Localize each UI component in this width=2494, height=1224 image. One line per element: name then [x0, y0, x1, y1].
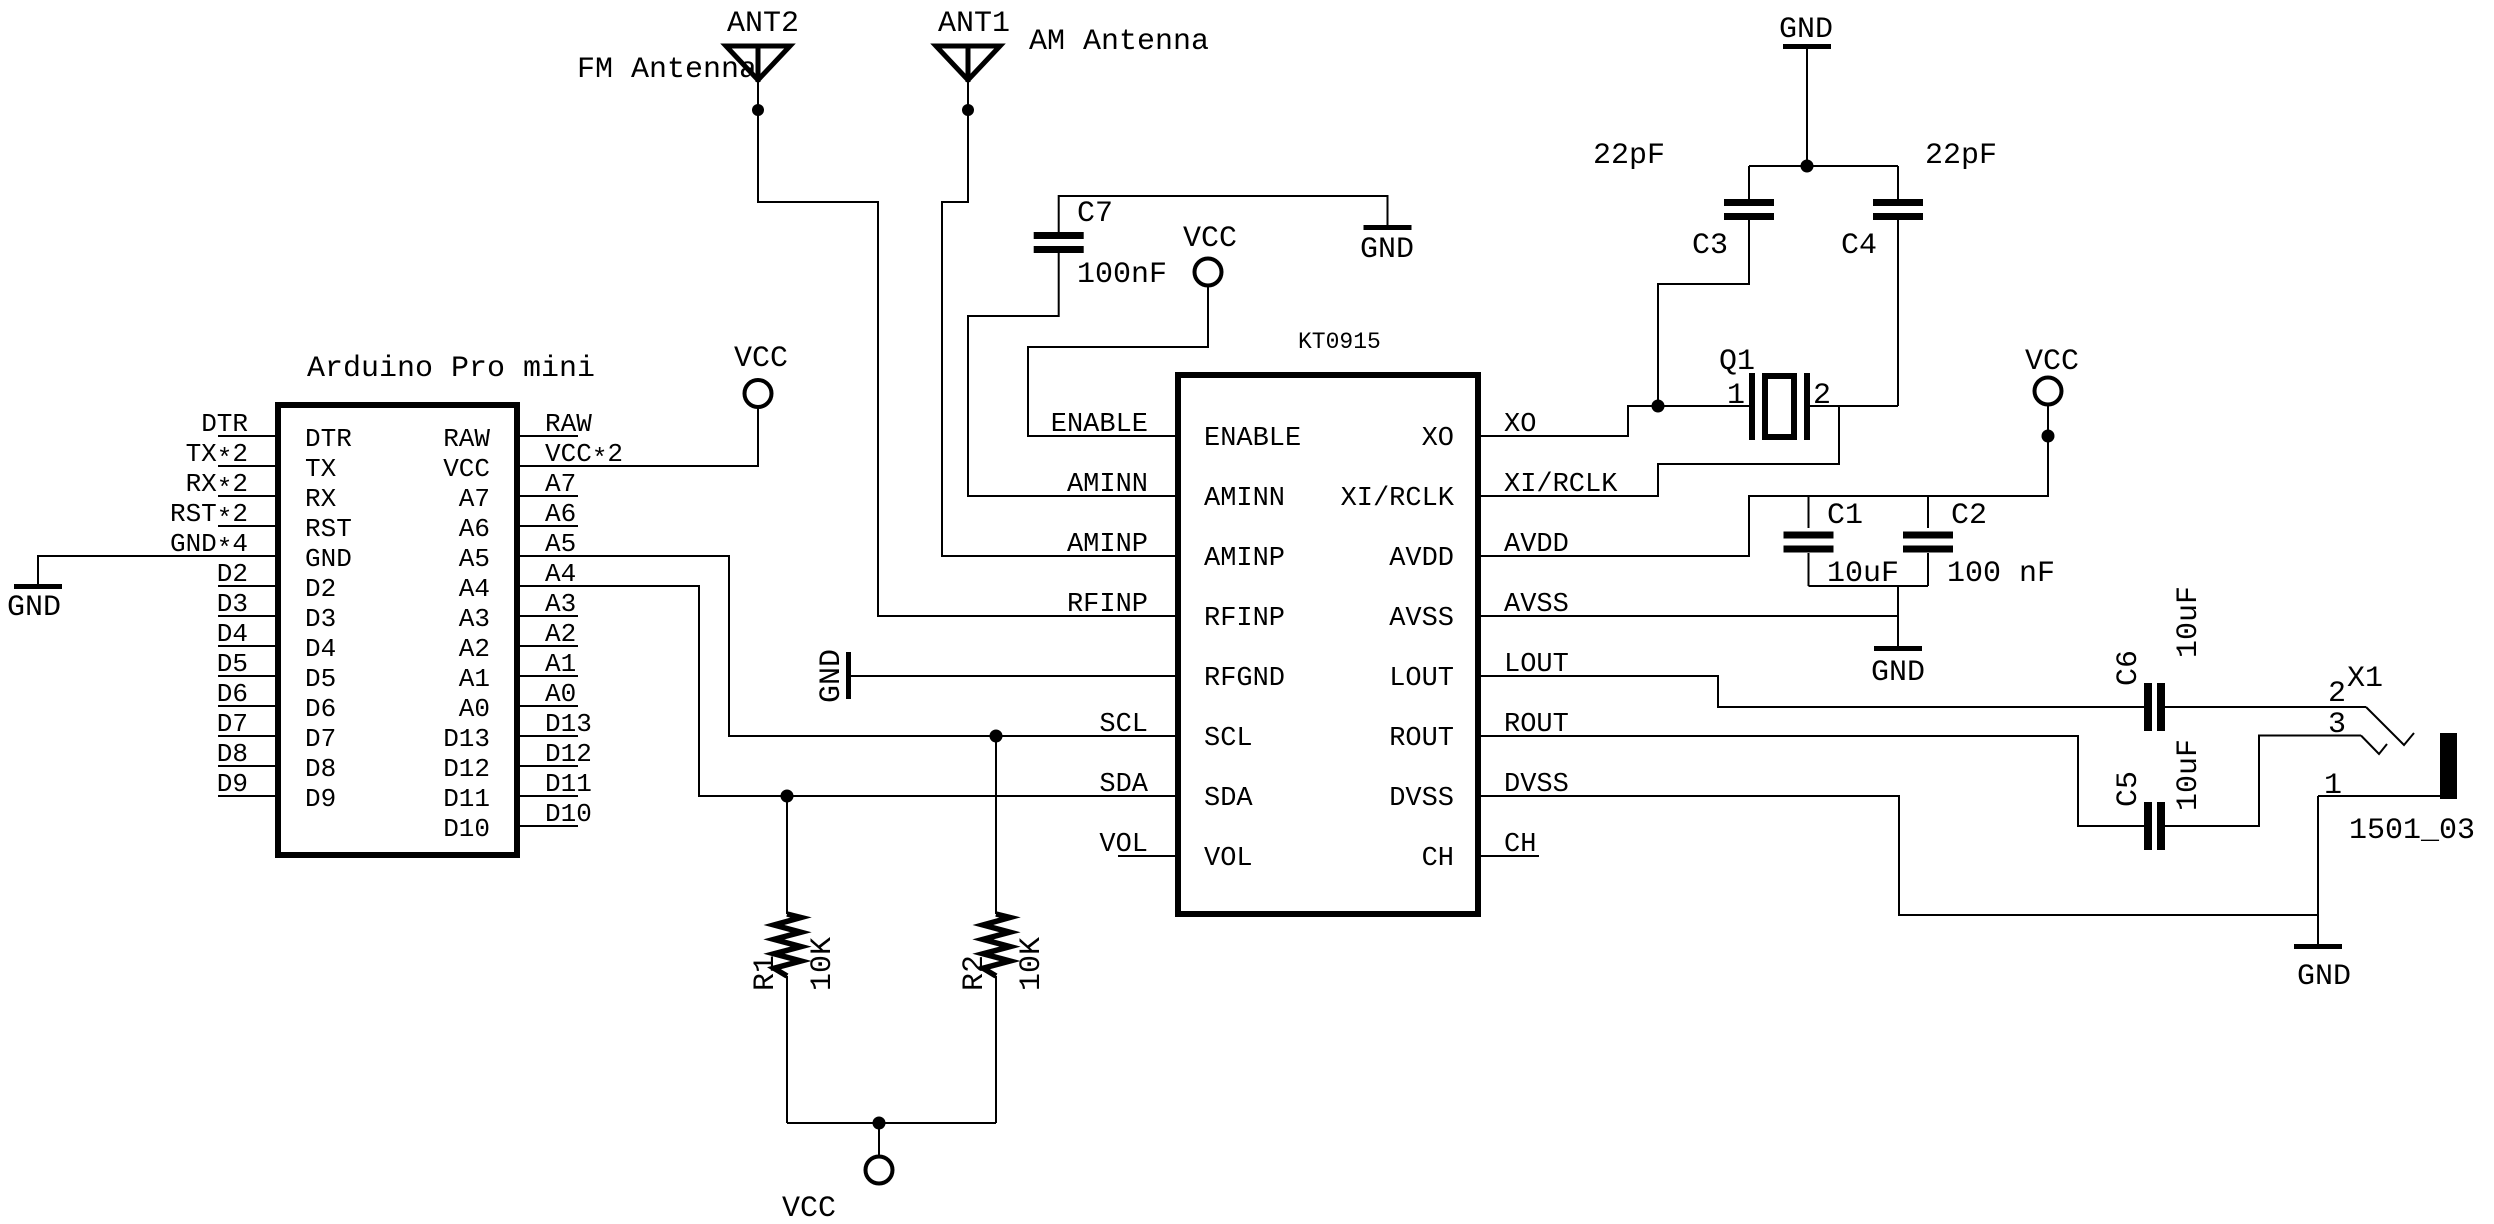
wire A5 to SCL [517, 556, 1178, 736]
pin D13 (Arduino right) [517, 735, 578, 737]
svg-text:2: 2 [1813, 379, 1831, 413]
capacitor C6 10uF [2144, 683, 2152, 731]
svg-text:RAW: RAW [443, 424, 490, 454]
svg-text:D2: D2 [305, 574, 336, 604]
svg-text:C7: C7 [1077, 197, 1113, 231]
svg-text:VOL: VOL [1204, 844, 1253, 874]
svg-text:D8: D8 [305, 754, 336, 784]
pin A6 (Arduino right) [517, 525, 578, 527]
pin D5 (Arduino left) [218, 675, 278, 677]
svg-text:RST: RST [305, 514, 352, 544]
wire C3 top [1748, 166, 1750, 199]
wire C1-C2 bottoms [1809, 585, 1929, 587]
svg-text:3: 3 [2328, 708, 2346, 742]
pin D2 (Arduino left) [218, 585, 278, 587]
wire C6 to X1 pin2 [2165, 706, 2366, 708]
pin A3 (Arduino right) [517, 615, 578, 617]
supply VCC (Arduino) [745, 380, 772, 407]
svg-text:ENABLE: ENABLE [1204, 424, 1301, 454]
svg-text:GND: GND [7, 591, 61, 625]
node ANT2 junction [752, 104, 764, 116]
ground symbol GND (Arduino) [14, 584, 62, 589]
wire X1 pin1 [2318, 795, 2440, 797]
pin D8 (Arduino left) [218, 765, 278, 767]
svg-text:D6: D6 [305, 694, 336, 724]
antenna ANT1 symbol [936, 46, 1000, 80]
svg-text:RAW: RAW [545, 409, 592, 439]
pin DTR (Arduino left) [218, 435, 278, 437]
svg-text:A0: A0 [459, 694, 490, 724]
svg-text:XI/RCLK: XI/RCLK [1341, 484, 1455, 514]
svg-text:ROUT: ROUT [1389, 724, 1454, 754]
wire C5 to X1 pin3 [2165, 736, 2361, 827]
pin D4 (Arduino left) [218, 645, 278, 647]
connector X1 contact arm pin3 [2361, 736, 2387, 755]
crystal Q1 symbol [1749, 373, 1755, 440]
pin A0 (Arduino right) [517, 705, 578, 707]
node SDA junction [781, 790, 794, 803]
svg-text:VCC: VCC [734, 342, 788, 376]
svg-text:GND: GND [1871, 656, 1925, 690]
wire VCC*2 net from Arduino VCC pin [517, 407, 758, 466]
wire R1-R2 bottoms to VCC [787, 1122, 996, 1124]
svg-text:A3: A3 [545, 589, 576, 619]
pin D10 (Arduino right) [517, 825, 578, 827]
connector X1 contact arm pin2 [2366, 707, 2414, 745]
wire C3-C4 tops to GND [1749, 165, 1898, 167]
svg-text:GND: GND [815, 649, 849, 703]
svg-text:1: 1 [2324, 769, 2342, 803]
svg-text:10K: 10K [1015, 937, 1049, 991]
svg-text:A2: A2 [459, 634, 490, 664]
wire LOUT to C6 [1478, 676, 2144, 707]
svg-text:D5: D5 [305, 664, 336, 694]
wire VCC to ENABLE pin [1028, 286, 1208, 436]
pin D12 (Arduino right) [517, 765, 578, 767]
ground GND (RFGND) rotated [846, 652, 851, 699]
svg-text:D4: D4 [305, 634, 336, 664]
pin D7 (Arduino left) [218, 735, 278, 737]
capacitor C3 22pF [1724, 199, 1774, 206]
svg-text:Arduino Pro mini: Arduino Pro mini [307, 352, 595, 386]
wire DVSS to GND [1478, 796, 2318, 915]
supply VCC (pull-ups) [866, 1157, 893, 1184]
wire Q1 pin2 [1810, 405, 1898, 407]
svg-text:RX: RX [305, 484, 337, 514]
wire ANT1 to AMINP [942, 82, 1178, 556]
pin RFGND (KT0915 left) [1118, 675, 1178, 677]
svg-text:D5: D5 [217, 649, 248, 679]
svg-text:D8: D8 [217, 739, 248, 769]
svg-text:D13: D13 [443, 724, 490, 754]
svg-text:D10: D10 [443, 814, 490, 844]
svg-text:AVDD: AVDD [1389, 544, 1454, 574]
svg-text:RFINP: RFINP [1067, 590, 1148, 620]
svg-text:VCC: VCC [782, 1192, 836, 1224]
pin RST (Arduino left) [218, 525, 278, 527]
svg-text:R2: R2 [958, 955, 992, 991]
svg-text:A0: A0 [545, 679, 576, 709]
supply VCC (ENABLE) [1195, 259, 1222, 286]
svg-text:10K: 10K [806, 937, 840, 991]
svg-text:SCL: SCL [1204, 724, 1253, 754]
svg-text:AVSS: AVSS [1389, 604, 1454, 634]
pin D11 (Arduino right) [517, 795, 578, 797]
svg-text:A4: A4 [459, 574, 490, 604]
svg-text:SDA: SDA [1204, 784, 1253, 814]
svg-text:D11: D11 [443, 784, 490, 814]
svg-text:D7: D7 [217, 709, 248, 739]
svg-text:D2: D2 [217, 559, 248, 589]
svg-text:A7: A7 [545, 469, 576, 499]
pin RAW (Arduino right) [517, 435, 578, 437]
svg-text:CH: CH [1504, 830, 1536, 860]
svg-text:AMINN: AMINN [1067, 470, 1148, 500]
svg-text:FM Antenna: FM Antenna [577, 53, 757, 87]
svg-text:A6: A6 [545, 499, 576, 529]
svg-text:D7: D7 [305, 724, 336, 754]
svg-text:X1: X1 [2347, 662, 2383, 696]
svg-text:D9: D9 [305, 784, 336, 814]
ground GND (C7) [1364, 225, 1412, 230]
pin TX (Arduino left) [218, 465, 278, 467]
svg-text:XO: XO [1422, 424, 1454, 454]
node SCL junction [990, 730, 1003, 743]
svg-text:CH: CH [1422, 844, 1454, 874]
svg-text:A6: A6 [459, 514, 490, 544]
ground GND (DVSS/X1) [2294, 944, 2342, 949]
svg-text:AM Antenna: AM Antenna [1029, 25, 1209, 59]
svg-text:RFGND: RFGND [1204, 664, 1285, 694]
svg-text:KT0915: KT0915 [1298, 329, 1381, 355]
node XO junction [1652, 400, 1665, 413]
wire R1 bottom [786, 976, 788, 1123]
svg-text:ANT1: ANT1 [938, 7, 1010, 41]
svg-text:VCC: VCC [443, 454, 490, 484]
svg-text:A1: A1 [459, 664, 490, 694]
svg-text:22pF: 22pF [1593, 139, 1665, 173]
wire VCC to AVDD pin [1478, 405, 2048, 556]
svg-text:C2: C2 [1951, 499, 1987, 533]
ground GND (C1C2) [1874, 646, 1922, 651]
svg-text:RFINP: RFINP [1204, 604, 1285, 634]
antenna ANT2 symbol [726, 46, 790, 80]
pin A1 (Arduino right) [517, 675, 578, 677]
svg-text:C1: C1 [1827, 499, 1863, 533]
wire XI/RCLK to Q1 pin2 [1478, 406, 1839, 496]
svg-text:A2: A2 [545, 619, 576, 649]
Arduino Pro mini body [278, 405, 517, 855]
svg-text:A4: A4 [545, 559, 576, 589]
svg-text:AMINP: AMINP [1067, 530, 1148, 560]
svg-text:10uF: 10uF [2172, 586, 2206, 658]
svg-text:GND: GND [2297, 960, 2351, 994]
svg-text:1: 1 [1727, 379, 1745, 413]
svg-text:D12: D12 [443, 754, 490, 784]
wire SDA to R1 [786, 796, 788, 914]
wire RFGND [851, 675, 1178, 677]
node AVDD junction [2042, 430, 2055, 443]
capacitor C4 22pF [1873, 199, 1923, 206]
pin CH (KT0915 right) [1478, 855, 1539, 857]
capacitor C1 10uF [1808, 496, 1810, 528]
svg-text:D9: D9 [217, 769, 248, 799]
capacitor C2 100nF [1927, 496, 1929, 528]
capacitor C7 100nF [1034, 232, 1084, 239]
svg-text:A5: A5 [459, 544, 490, 574]
connector X1 sleeve contact [2440, 733, 2457, 799]
svg-text:GND: GND [305, 544, 352, 574]
svg-text:100nF: 100nF [1077, 258, 1167, 292]
wire ROUT to C5 [1478, 736, 2144, 826]
svg-text:D3: D3 [305, 604, 336, 634]
pin D9 (Arduino left) [218, 795, 278, 797]
svg-text:D3: D3 [217, 589, 248, 619]
wire SCL to R2 [995, 736, 997, 914]
wire C3 bottom to XO net [1658, 220, 1749, 406]
node VCC junction (bottom) [873, 1117, 886, 1130]
IC KT0915 body [1178, 375, 1478, 914]
svg-text:D13: D13 [545, 709, 592, 739]
svg-text:AMINP: AMINP [1204, 544, 1285, 574]
wire AVSS [1478, 615, 1898, 617]
svg-text:D4: D4 [217, 619, 248, 649]
svg-text:GND: GND [1360, 233, 1414, 267]
svg-text:TX: TX [305, 454, 337, 484]
pin D3 (Arduino left) [218, 615, 278, 617]
svg-text:D6: D6 [217, 679, 248, 709]
wire ANT2 to RFINP [758, 82, 1178, 616]
svg-text:22pF: 22pF [1925, 139, 1997, 173]
svg-text:AMINN: AMINN [1204, 484, 1285, 514]
resistor R2 10K [983, 914, 1010, 976]
svg-text:C5: C5 [2112, 771, 2146, 807]
pin A7 (Arduino right) [517, 495, 578, 497]
wire to GND (C1C2) [1897, 586, 1899, 646]
svg-text:10uF: 10uF [2172, 739, 2206, 811]
svg-text:A7: A7 [459, 484, 490, 514]
wire C7 top to GND [1059, 196, 1388, 232]
svg-text:2: 2 [2328, 677, 2346, 711]
wire C7 bottom to AMINN [968, 253, 1178, 496]
svg-text:A5: A5 [545, 529, 576, 559]
node ANT1 junction [962, 104, 974, 116]
wire XO to Q1 pin1 [1478, 406, 1749, 436]
svg-text:D10: D10 [545, 799, 592, 829]
svg-text:C6: C6 [2112, 650, 2146, 686]
svg-text:100 nF: 100 nF [1947, 557, 2055, 591]
svg-text:DVSS: DVSS [1389, 784, 1454, 814]
svg-text:GND: GND [1779, 13, 1833, 47]
wire C4 bottom [1897, 220, 1899, 406]
svg-text:DTR: DTR [201, 409, 248, 439]
svg-text:ANT2: ANT2 [727, 7, 799, 41]
svg-text:VCC: VCC [1183, 222, 1237, 256]
svg-text:D11: D11 [545, 769, 592, 799]
wire C4 top [1897, 166, 1899, 199]
wire GND net from Arduino GND pin [38, 556, 278, 584]
svg-text:1501_03: 1501_03 [2349, 814, 2475, 848]
ground GND (crystal) [1783, 44, 1831, 49]
node GND junction (crystal) [1801, 160, 1814, 173]
wire A4 to SDA [517, 586, 1178, 796]
svg-text:VCC: VCC [2025, 345, 2079, 379]
svg-text:A3: A3 [459, 604, 490, 634]
svg-text:C4: C4 [1841, 229, 1877, 263]
svg-text:R1: R1 [749, 955, 783, 991]
pin VOL (KT0915 left) [1118, 855, 1178, 857]
supply VCC (AVDD) [2035, 378, 2062, 405]
wire R2 bottom [995, 976, 997, 1123]
svg-text:DTR: DTR [305, 424, 352, 454]
svg-text:D12: D12 [545, 739, 592, 769]
svg-text:ENABLE: ENABLE [1051, 410, 1148, 440]
wire to VCC circle [878, 1123, 880, 1156]
svg-text:C3: C3 [1692, 229, 1728, 263]
svg-text:VOL: VOL [1099, 830, 1148, 860]
pin D6 (Arduino left) [218, 705, 278, 707]
capacitor C5 10uF [2144, 802, 2152, 850]
svg-text:A1: A1 [545, 649, 576, 679]
pin A2 (Arduino right) [517, 645, 578, 647]
pin RX (Arduino left) [218, 495, 278, 497]
resistor R1 10K [774, 914, 801, 976]
svg-text:LOUT: LOUT [1389, 664, 1454, 694]
